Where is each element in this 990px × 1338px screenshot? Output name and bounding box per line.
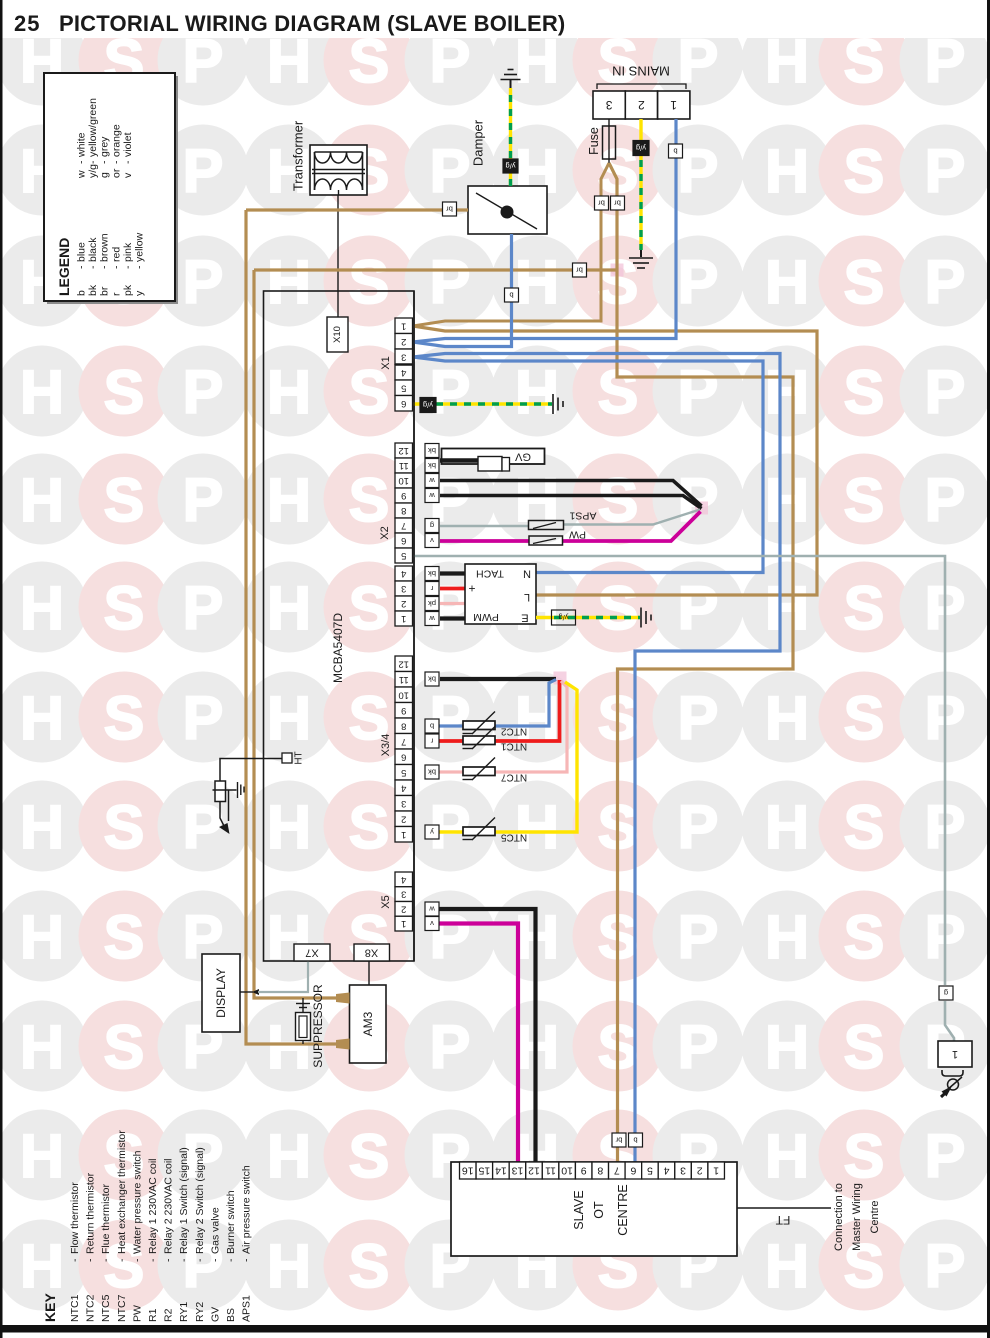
svg-text:Relay 2 Switch (signal): Relay 2 Switch (signal) (194, 1147, 206, 1254)
svg-text:bk: bk (87, 284, 99, 296)
svg-text:SUPPRESSOR: SUPPRESSOR (311, 984, 325, 1068)
svg-text:5: 5 (401, 767, 406, 778)
svg-text:Air pressure switch: Air pressure switch (241, 1165, 253, 1254)
svg-text:1: 1 (401, 829, 406, 840)
svg-text:b: b (430, 722, 434, 731)
svg-text:H: H (765, 137, 809, 205)
svg-text:NTC2: NTC2 (501, 726, 528, 737)
svg-text:P: P (678, 466, 719, 534)
svg-text:P: P (678, 903, 719, 971)
svg-text:bk: bk (428, 768, 436, 777)
svg-text:H: H (267, 574, 311, 642)
svg-text:w: w (76, 170, 88, 179)
svg-text:H: H (765, 1122, 809, 1190)
svg-text:4: 4 (401, 367, 406, 378)
svg-text:S: S (104, 684, 145, 752)
svg-text:9: 9 (401, 705, 406, 716)
svg-text:S: S (104, 1013, 145, 1081)
svg-text:Master Wiring: Master Wiring (851, 1183, 863, 1251)
svg-text:r: r (110, 292, 122, 296)
svg-text:4: 4 (663, 1165, 669, 1177)
svg-text:g: g (944, 989, 948, 998)
svg-text:P: P (183, 466, 224, 534)
svg-text:-: - (163, 1258, 175, 1262)
svg-text:BS: BS (225, 1308, 237, 1322)
svg-text:13: 13 (511, 1165, 523, 1177)
svg-text:Relay 1 Switch (signal): Relay 1 Switch (signal) (178, 1147, 190, 1254)
svg-text:H: H (765, 793, 809, 861)
svg-text:R2: R2 (163, 1308, 175, 1322)
svg-text:g: g (99, 172, 111, 178)
svg-text:9: 9 (581, 1165, 587, 1177)
svg-text:11: 11 (399, 460, 409, 471)
svg-text:+: + (468, 582, 475, 596)
svg-text:P: P (925, 358, 966, 426)
svg-text:-: - (241, 1258, 253, 1262)
svg-text:H: H (765, 574, 809, 642)
svg-text:or: or (110, 168, 122, 178)
svg-text:P: P (678, 793, 719, 861)
svg-text:pk: pk (428, 599, 436, 608)
svg-text:S: S (104, 574, 145, 642)
svg-text:-: - (194, 1258, 206, 1262)
svg-text:P: P (183, 793, 224, 861)
svg-text:NTC5: NTC5 (100, 1294, 112, 1322)
svg-text:16: 16 (462, 1165, 474, 1177)
svg-text:-: - (178, 1258, 190, 1262)
svg-text:v: v (430, 536, 434, 545)
svg-text:4: 4 (401, 874, 406, 885)
svg-text:H: H (20, 574, 64, 642)
svg-text:X2: X2 (379, 526, 391, 539)
svg-text:H: H (267, 248, 311, 316)
svg-text:blue: blue (76, 242, 88, 262)
svg-text:H: H (515, 358, 559, 426)
svg-text:bk: bk (428, 446, 436, 455)
svg-text:w: w (429, 614, 436, 623)
svg-text:P: P (183, 248, 224, 316)
svg-text:-: - (122, 265, 134, 269)
svg-text:P: P (678, 684, 719, 752)
svg-text:FT: FT (775, 1213, 790, 1227)
svg-text:br: br (598, 199, 605, 208)
svg-text:-: - (110, 265, 122, 269)
svg-text:b: b (509, 291, 513, 300)
svg-text:-: - (147, 1258, 159, 1262)
svg-text:b: b (76, 290, 88, 296)
svg-text:P: P (183, 574, 224, 642)
svg-text:N: N (523, 568, 531, 580)
svg-text:Gas valve: Gas valve (209, 1207, 221, 1254)
svg-text:S: S (844, 1122, 885, 1190)
svg-text:X1: X1 (380, 356, 392, 369)
svg-text:red: red (110, 247, 122, 262)
svg-text:H: H (765, 903, 809, 971)
svg-text:brown: brown (99, 233, 111, 262)
svg-text:y/g: y/g (636, 144, 646, 153)
svg-text:P: P (925, 1232, 966, 1300)
svg-text:b: b (673, 147, 677, 156)
svg-text:9: 9 (401, 490, 406, 501)
svg-text:y/g: y/g (505, 162, 515, 171)
svg-text:P: P (678, 248, 719, 316)
svg-text:H: H (267, 466, 311, 534)
svg-text:10: 10 (398, 689, 409, 700)
svg-text:S: S (349, 793, 390, 861)
svg-text:-: - (87, 160, 99, 164)
svg-text:P: P (925, 466, 966, 534)
svg-text:-: - (76, 160, 88, 164)
svg-text:5: 5 (401, 382, 406, 393)
svg-text:br: br (614, 199, 621, 208)
svg-text:Heat exchanger thermistor: Heat exchanger thermistor (116, 1130, 128, 1254)
svg-text:H: H (765, 684, 809, 752)
svg-text:v: v (430, 919, 434, 928)
svg-text:H: H (765, 466, 809, 534)
svg-text:yellow: yellow (134, 232, 146, 262)
svg-text:S: S (104, 793, 145, 861)
svg-text:8: 8 (597, 1165, 603, 1177)
svg-text:H: H (765, 358, 809, 426)
svg-text:Fuse: Fuse (587, 127, 601, 155)
svg-text:H: H (20, 1122, 64, 1190)
svg-text:P: P (925, 248, 966, 316)
svg-text:S: S (844, 574, 885, 642)
svg-text:1: 1 (401, 613, 406, 624)
svg-text:8: 8 (401, 505, 406, 516)
svg-text:bk: bk (428, 461, 436, 470)
svg-text:-: - (69, 1258, 81, 1262)
svg-text:-: - (110, 160, 122, 164)
svg-text:S: S (104, 358, 145, 426)
svg-text:S: S (844, 137, 885, 205)
svg-text:P: P (678, 1013, 719, 1081)
svg-text:-: - (99, 160, 111, 164)
svg-text:1: 1 (670, 98, 677, 112)
svg-text:H: H (267, 1232, 311, 1300)
svg-text:P: P (925, 137, 966, 205)
svg-text:Burner switch: Burner switch (225, 1190, 237, 1254)
svg-text:H: H (765, 248, 809, 316)
svg-text:H: H (515, 248, 559, 316)
svg-text:7: 7 (401, 736, 406, 747)
svg-text:2: 2 (401, 598, 406, 609)
svg-text:bk: bk (428, 569, 436, 578)
svg-text:1: 1 (952, 1048, 958, 1060)
svg-text:y/g: y/g (558, 613, 568, 622)
svg-text:X8: X8 (365, 947, 378, 959)
svg-text:NTC5: NTC5 (501, 832, 528, 843)
svg-text:2: 2 (401, 813, 406, 824)
svg-text:Flue thermistor: Flue thermistor (100, 1183, 112, 1254)
svg-text:black: black (87, 237, 99, 262)
svg-text:X5: X5 (380, 895, 392, 908)
svg-text:10: 10 (398, 475, 409, 486)
svg-text:H: H (20, 1013, 64, 1081)
svg-text:S: S (349, 574, 390, 642)
svg-text:X10: X10 (332, 326, 343, 343)
svg-text:Connection to: Connection to (833, 1183, 845, 1251)
svg-text:PWM: PWM (473, 611, 499, 623)
svg-text:br: br (615, 1136, 622, 1145)
svg-text:orange: orange (110, 124, 122, 157)
svg-text:H: H (20, 466, 64, 534)
svg-text:1: 1 (401, 918, 406, 929)
svg-text:H: H (765, 1232, 809, 1300)
svg-text:6: 6 (401, 398, 406, 409)
svg-text:pink: pink (122, 242, 134, 262)
svg-text:S: S (844, 1232, 885, 1300)
svg-text:X3/4: X3/4 (380, 734, 392, 757)
svg-text:Relay 1 230VAC coil: Relay 1 230VAC coil (147, 1158, 159, 1254)
svg-text:12: 12 (398, 658, 409, 669)
svg-text:3: 3 (401, 889, 406, 900)
svg-text:LEGEND: LEGEND (56, 238, 72, 296)
svg-text:H: H (20, 358, 64, 426)
svg-text:7: 7 (614, 1165, 620, 1177)
svg-text:KEY: KEY (42, 1293, 58, 1322)
svg-text:NTC2: NTC2 (85, 1294, 97, 1322)
svg-text:6: 6 (401, 751, 406, 762)
svg-text:11: 11 (399, 674, 409, 685)
svg-text:RY2: RY2 (194, 1302, 206, 1322)
svg-text:GV: GV (209, 1307, 221, 1322)
svg-text:bk: bk (428, 675, 436, 684)
svg-text:-: - (76, 265, 88, 269)
svg-text:Transformer: Transformer (291, 120, 306, 191)
svg-text:white: white (76, 132, 88, 158)
svg-text:14: 14 (495, 1165, 507, 1177)
svg-text:1: 1 (401, 320, 406, 331)
svg-text:-: - (99, 265, 111, 269)
svg-text:-: - (131, 1258, 143, 1262)
svg-text:w: w (429, 491, 436, 500)
svg-text:w: w (429, 476, 436, 485)
svg-text:S: S (844, 684, 885, 752)
svg-text:DISPLAY: DISPLAY (214, 968, 228, 1018)
svg-text:P: P (925, 1122, 966, 1190)
svg-text:P: P (183, 684, 224, 752)
svg-text:15: 15 (478, 1165, 490, 1177)
svg-text:-: - (209, 1258, 221, 1262)
svg-text:Return thermistor: Return thermistor (85, 1172, 97, 1254)
svg-text:5: 5 (647, 1165, 653, 1177)
svg-text:PW: PW (569, 529, 586, 541)
svg-text:P: P (183, 358, 224, 426)
svg-text:5: 5 (401, 550, 406, 561)
svg-text:NTC1: NTC1 (69, 1294, 81, 1322)
svg-text:12: 12 (398, 445, 409, 456)
svg-text:-: - (225, 1258, 237, 1262)
svg-text:br: br (446, 205, 453, 214)
svg-text:E: E (521, 612, 528, 624)
svg-text:Relay 2 230VAC coil: Relay 2 230VAC coil (163, 1158, 175, 1254)
svg-text:P: P (678, 574, 719, 642)
svg-text:P: P (183, 137, 224, 205)
svg-text:2: 2 (401, 336, 406, 347)
svg-text:S: S (844, 793, 885, 861)
svg-text:violet: violet (122, 132, 134, 157)
svg-text:4: 4 (401, 782, 406, 793)
svg-text:R1: R1 (147, 1308, 159, 1322)
svg-text:PICTORIAL WIRING DIAGRAM (SLAV: PICTORIAL WIRING DIAGRAM (SLAVE BOILER) (59, 11, 565, 36)
svg-text:SLAVE: SLAVE (572, 1190, 586, 1229)
svg-text:H: H (267, 358, 311, 426)
svg-text:H: H (267, 793, 311, 861)
svg-text:Damper: Damper (471, 119, 486, 166)
svg-text:S: S (598, 574, 639, 642)
svg-text:RY1: RY1 (178, 1302, 190, 1322)
svg-text:y/g: y/g (87, 164, 99, 178)
svg-text:2: 2 (638, 98, 645, 112)
svg-text:S: S (844, 358, 885, 426)
svg-text:H: H (267, 1122, 311, 1190)
svg-text:H: H (20, 684, 64, 752)
svg-text:P: P (430, 137, 471, 205)
svg-text:6: 6 (401, 535, 406, 546)
svg-text:Flow thermistor: Flow thermistor (69, 1182, 81, 1254)
svg-text:P: P (430, 248, 471, 316)
svg-text:MAINS IN: MAINS IN (612, 64, 670, 79)
svg-text:P: P (430, 1013, 471, 1081)
svg-text:H: H (267, 684, 311, 752)
svg-text:APS1: APS1 (241, 1295, 253, 1322)
svg-text:PW: PW (131, 1305, 143, 1322)
svg-text:L: L (524, 591, 530, 603)
svg-text:v: v (122, 172, 134, 178)
svg-text:4: 4 (401, 568, 406, 579)
svg-text:S: S (104, 466, 145, 534)
svg-text:OT: OT (592, 1201, 606, 1219)
svg-text:Centre: Centre (869, 1200, 881, 1233)
svg-text:S: S (844, 903, 885, 971)
svg-text:-: - (100, 1258, 112, 1262)
svg-text:10: 10 (561, 1165, 573, 1177)
svg-text:br: br (99, 286, 111, 296)
svg-text:w: w (429, 905, 436, 914)
svg-text:S: S (844, 248, 885, 316)
svg-text:NTC7: NTC7 (501, 772, 528, 783)
svg-text:25: 25 (14, 11, 40, 36)
svg-text:8: 8 (401, 720, 406, 731)
svg-text:S: S (349, 466, 390, 534)
svg-text:2: 2 (697, 1165, 703, 1177)
svg-text:AM3: AM3 (361, 1011, 375, 1036)
svg-text:GV: GV (514, 451, 531, 463)
svg-text:3: 3 (605, 98, 612, 112)
svg-text:H: H (20, 1232, 64, 1300)
svg-text:S: S (844, 1013, 885, 1081)
svg-text:TACH: TACH (476, 568, 504, 580)
svg-text:7: 7 (401, 520, 406, 531)
svg-text:HT: HT (294, 751, 305, 764)
svg-text:P: P (678, 137, 719, 205)
svg-text:3: 3 (401, 351, 406, 362)
svg-text:H: H (20, 793, 64, 861)
svg-text:6: 6 (630, 1165, 636, 1177)
svg-text:-: - (116, 1258, 128, 1262)
svg-text:pk: pk (122, 284, 134, 296)
svg-text:-: - (122, 160, 134, 164)
svg-text:b: b (633, 1136, 637, 1145)
svg-text:APS1: APS1 (569, 510, 596, 522)
svg-text:P: P (430, 358, 471, 426)
svg-text:11: 11 (545, 1165, 556, 1177)
svg-text:H: H (765, 1013, 809, 1081)
svg-text:CENTRE: CENTRE (616, 1184, 630, 1235)
svg-text:P: P (678, 358, 719, 426)
svg-text:g: g (430, 521, 434, 530)
svg-text:3: 3 (680, 1165, 686, 1177)
svg-text:3: 3 (401, 583, 406, 594)
svg-text:S: S (349, 248, 390, 316)
svg-text:-: - (87, 265, 99, 269)
svg-text:y: y (430, 828, 434, 837)
svg-text:y: y (134, 290, 146, 296)
svg-text:-: - (134, 265, 146, 269)
svg-text:grey: grey (99, 136, 111, 157)
svg-text:1: 1 (713, 1165, 719, 1177)
svg-text:S: S (349, 1232, 390, 1300)
svg-text:y/g: y/g (423, 401, 433, 410)
svg-text:-: - (85, 1258, 97, 1262)
svg-text:NTC7: NTC7 (116, 1294, 128, 1322)
svg-text:br: br (576, 266, 583, 275)
svg-text:Water pressure switch: Water pressure switch (131, 1150, 143, 1254)
svg-text:NTC1: NTC1 (501, 741, 528, 752)
svg-text:S: S (104, 903, 145, 971)
svg-text:S: S (844, 466, 885, 534)
svg-text:X7: X7 (305, 947, 318, 959)
svg-text:S: S (349, 1122, 390, 1190)
svg-text:MCBA5407D: MCBA5407D (331, 613, 345, 683)
svg-text:2: 2 (401, 903, 406, 914)
svg-text:H: H (20, 903, 64, 971)
svg-text:yellow/green: yellow/green (87, 98, 99, 157)
svg-text:3: 3 (401, 798, 406, 809)
svg-text:12: 12 (528, 1165, 540, 1177)
svg-text:H: H (515, 793, 559, 861)
